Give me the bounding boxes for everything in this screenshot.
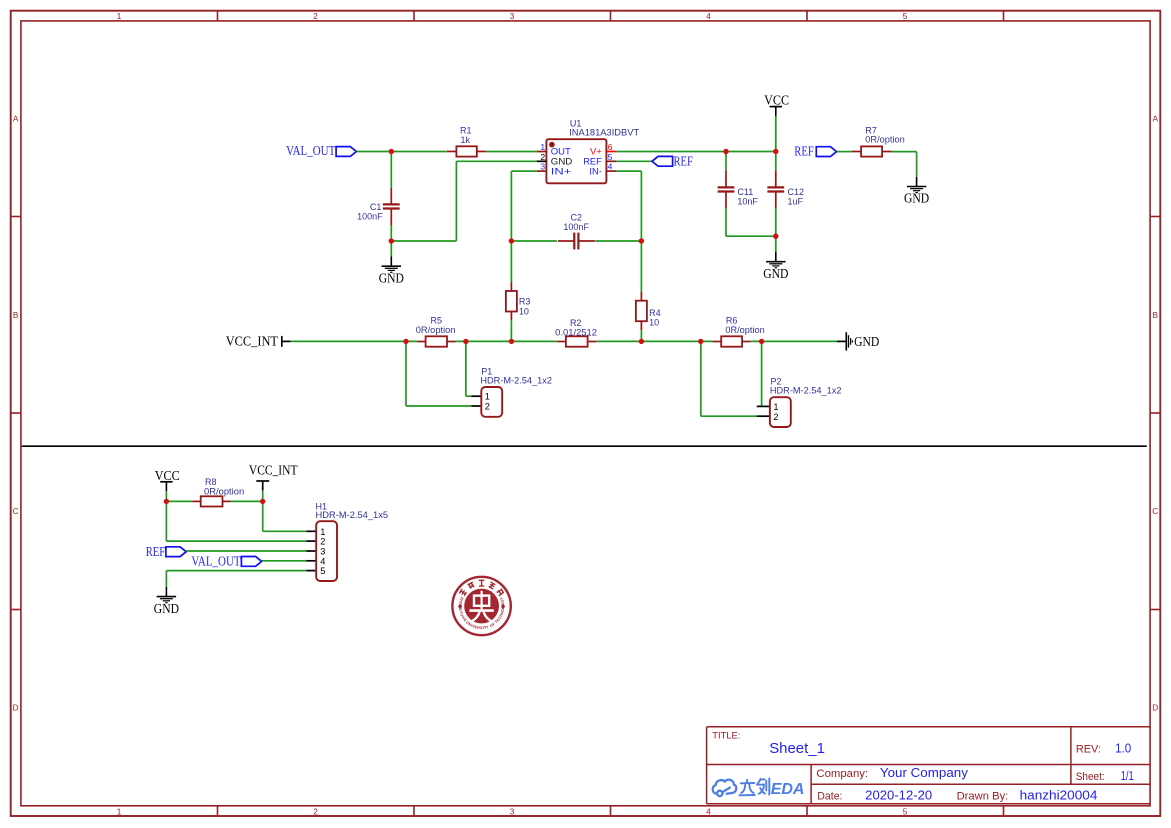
svg-text:2: 2 [320, 537, 325, 547]
svg-text:R3: R3 [519, 297, 531, 307]
svg-text:Company:: Company: [816, 768, 868, 780]
svg-text:Your Company: Your Company [880, 765, 969, 780]
svg-text:4: 4 [320, 556, 325, 566]
svg-text:4: 4 [608, 162, 613, 172]
svg-text:Sheet:: Sheet: [1076, 771, 1105, 783]
svg-text:REF: REF [794, 143, 813, 158]
svg-text:1: 1 [320, 527, 325, 537]
svg-text:TITLE:: TITLE: [712, 731, 740, 741]
svg-text:IN+: IN+ [551, 166, 572, 176]
svg-text:VCC_INT: VCC_INT [226, 333, 278, 348]
svg-text:0R/option: 0R/option [865, 135, 905, 145]
svg-text:C12: C12 [788, 187, 805, 197]
svg-text:REF: REF [674, 153, 693, 168]
svg-text:REV:: REV: [1076, 744, 1101, 756]
svg-text:A: A [13, 115, 19, 124]
svg-text:D: D [1152, 704, 1158, 713]
svg-text:REF: REF [146, 544, 165, 559]
svg-text:C: C [13, 507, 19, 516]
svg-text:1k: 1k [461, 135, 471, 145]
svg-text:GND: GND [904, 191, 929, 206]
svg-text:EDA: EDA [771, 781, 805, 798]
svg-text:3: 3 [320, 547, 325, 557]
svg-text:OUT: OUT [551, 147, 571, 157]
svg-text:0R/option: 0R/option [204, 487, 244, 497]
svg-text:10nF: 10nF [737, 197, 758, 207]
svg-text:GND: GND [379, 270, 404, 285]
svg-text:0.01/2512: 0.01/2512 [555, 327, 597, 337]
svg-text:R1: R1 [460, 125, 472, 135]
svg-text:C1: C1 [370, 202, 382, 212]
svg-text:5: 5 [320, 566, 325, 576]
svg-text:B: B [13, 311, 19, 320]
svg-text:6: 6 [608, 142, 613, 152]
svg-text:1/1: 1/1 [1121, 768, 1134, 783]
svg-text:2: 2 [313, 807, 318, 816]
svg-text:R6: R6 [726, 316, 738, 326]
svg-text:B: B [1152, 311, 1158, 320]
svg-text:1: 1 [485, 392, 490, 402]
svg-text:3: 3 [540, 162, 545, 172]
svg-text:Date:: Date: [817, 791, 842, 803]
svg-text:REF: REF [583, 157, 602, 167]
svg-text:2: 2 [485, 402, 490, 412]
svg-text:VAL_OUT: VAL_OUT [286, 143, 335, 158]
svg-text:1: 1 [773, 402, 778, 412]
svg-text:10: 10 [519, 306, 529, 316]
svg-text:3: 3 [510, 807, 515, 816]
svg-text:A: A [1152, 115, 1158, 124]
svg-text:GND: GND [551, 157, 573, 167]
svg-text:D: D [13, 704, 19, 713]
svg-text:1: 1 [540, 142, 545, 152]
svg-text:GND: GND [154, 601, 179, 616]
svg-text:GND: GND [763, 266, 788, 281]
svg-text:3: 3 [510, 12, 515, 21]
svg-text:2020-12-20: 2020-12-20 [865, 788, 932, 803]
svg-text:100nF: 100nF [563, 222, 589, 232]
svg-text:R8: R8 [205, 477, 217, 487]
svg-text:5: 5 [903, 807, 908, 816]
svg-text:1uF: 1uF [788, 197, 804, 207]
svg-text:C: C [1152, 507, 1158, 516]
svg-text:0R/option: 0R/option [416, 325, 456, 335]
svg-text:R5: R5 [431, 316, 443, 326]
svg-text:V+: V+ [590, 147, 602, 157]
svg-text:HDR-M-2.54_1x2: HDR-M-2.54_1x2 [770, 386, 842, 396]
svg-text:Drawn By:: Drawn By: [957, 791, 1009, 803]
svg-text:5: 5 [903, 12, 908, 21]
svg-text:4: 4 [706, 12, 711, 21]
svg-text:Sheet_1: Sheet_1 [769, 740, 825, 757]
svg-text:2: 2 [313, 12, 318, 21]
svg-text:2: 2 [773, 412, 778, 422]
svg-text:C11: C11 [737, 187, 753, 197]
svg-text:100nF: 100nF [357, 212, 383, 222]
svg-text:VCC_INT: VCC_INT [249, 462, 298, 477]
svg-text:0R/option: 0R/option [725, 325, 764, 335]
svg-text:VCC: VCC [155, 468, 180, 483]
svg-text:IN-: IN- [589, 166, 601, 176]
svg-text:HDR-M-2.54_1x2: HDR-M-2.54_1x2 [480, 376, 552, 386]
svg-text:VCC: VCC [764, 93, 789, 108]
svg-text:2: 2 [540, 152, 545, 162]
svg-text:GND: GND [854, 334, 879, 349]
svg-text:1: 1 [117, 807, 122, 816]
svg-text:R4: R4 [649, 308, 661, 318]
svg-text:5: 5 [608, 152, 613, 162]
svg-text:10: 10 [649, 318, 659, 328]
svg-text:1: 1 [117, 12, 122, 21]
svg-text:hanzhi20004: hanzhi20004 [1020, 788, 1098, 803]
svg-text:4: 4 [706, 807, 711, 816]
svg-text:1.0: 1.0 [1115, 741, 1131, 756]
svg-text:VAL_OUT: VAL_OUT [191, 554, 240, 569]
svg-text:HDR-M-2.54_1x5: HDR-M-2.54_1x5 [316, 510, 389, 520]
svg-text:INA181A3IDBVT: INA181A3IDBVT [569, 127, 640, 137]
